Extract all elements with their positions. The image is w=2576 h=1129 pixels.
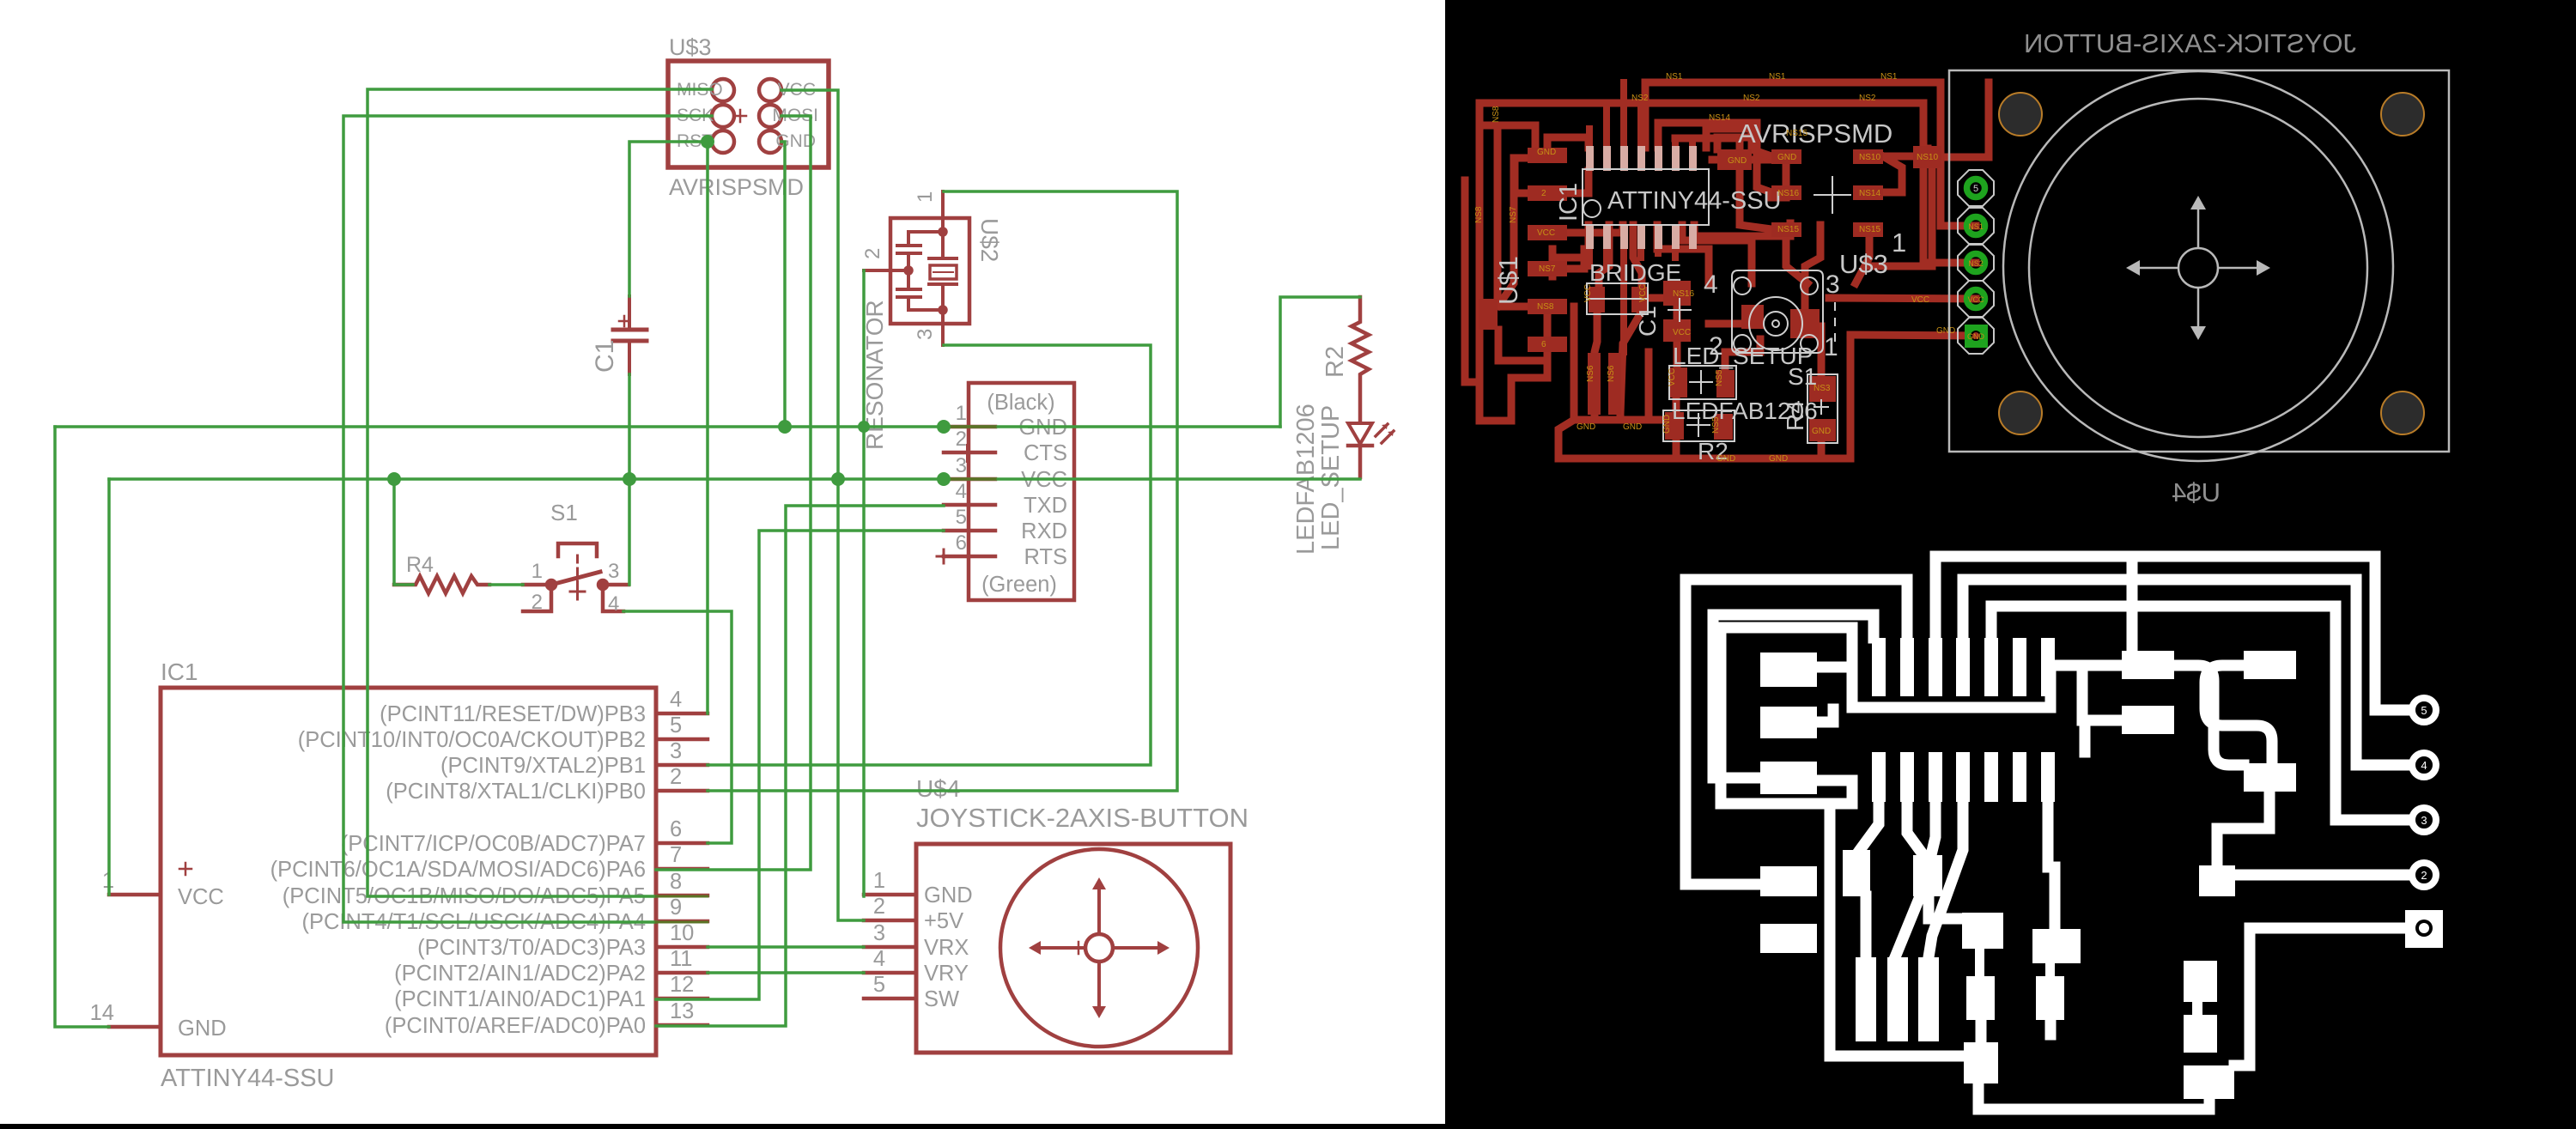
svg-text:2: 2 xyxy=(532,591,543,614)
svg-text:NS1: NS1 xyxy=(1666,72,1683,82)
bottom-left bars (mask) xyxy=(1856,957,1939,1041)
svg-text:NS8: NS8 xyxy=(1474,206,1484,223)
outline S1R4 xyxy=(1807,374,1838,443)
trace IC pads down to bridge xyxy=(1599,225,1609,287)
svg-text:SW: SW xyxy=(924,987,959,1011)
svg-text:NS15: NS15 xyxy=(1786,129,1807,138)
header pads green xyxy=(1958,170,1994,354)
svg-text:TXD: TXD xyxy=(1024,494,1067,518)
svg-text:1: 1 xyxy=(914,191,937,203)
svg-text:GND: GND xyxy=(1967,332,1985,341)
svg-text:NS15: NS15 xyxy=(1777,225,1799,234)
svg-text:IC1: IC1 xyxy=(1555,183,1583,222)
trace stub5 to H1 xyxy=(1929,802,2055,929)
svg-text:(PCINT8/XTAL1/CLKI)PB0: (PCINT8/XTAL1/CLKI)PB0 xyxy=(386,780,646,804)
pin labels U$3 xyxy=(677,80,818,151)
riser traces IC top pads xyxy=(1589,82,1692,148)
header U$3 AVRISPSMD xyxy=(668,61,829,167)
svg-text:C1: C1 xyxy=(1634,306,1661,337)
outline R2 xyxy=(1663,410,1735,441)
trace fork b xyxy=(1895,802,1923,957)
outline bridge xyxy=(1587,283,1648,314)
trace switch pad up xyxy=(1805,225,1820,309)
schematic text xyxy=(90,34,1349,1092)
trace NS6 pair xyxy=(1620,275,1627,352)
mounting holes xyxy=(1999,93,2424,434)
pads U$1 header xyxy=(1528,148,1567,352)
left bottom bars xyxy=(1479,299,1621,415)
svg-text:VCC: VCC xyxy=(1537,228,1555,238)
trace B2 s-curve down xyxy=(2205,665,2272,763)
svg-text:4: 4 xyxy=(1704,270,1718,299)
wire U$3 GND pin to GND rail xyxy=(781,142,785,427)
svg-text:(PCINT7/ICP/OC0B/ADC7)PA7: (PCINT7/ICP/OC0B/ADC7)PA7 xyxy=(341,832,646,856)
svg-text:GND: GND xyxy=(1623,422,1642,432)
trace terminal2 xyxy=(2235,870,2409,881)
trace terminal1 xyxy=(2234,928,2406,1065)
svg-text:U$4: U$4 xyxy=(916,775,960,802)
yellow net labels xyxy=(1474,72,1955,464)
trace U$1 VCC pad3 right xyxy=(1567,225,1623,233)
pads S1/R4 xyxy=(1809,376,1836,441)
trace C1 down to LED xyxy=(1650,294,1663,302)
trace U$3 right col to green VCC xyxy=(1856,237,1869,283)
trace LED right pad to switch xyxy=(1725,339,1760,370)
wire MISO net xyxy=(368,89,712,896)
cross C1 xyxy=(1668,298,1692,322)
IC pin names xyxy=(270,702,646,1038)
trace pad row2 link xyxy=(1817,709,1833,722)
resonator U$2 xyxy=(864,191,969,345)
svg-text:NS10: NS10 xyxy=(1917,153,1938,162)
svg-text:R4: R4 xyxy=(1782,400,1808,431)
bottom pads (mask) xyxy=(1964,1042,2234,1099)
svg-text:8: 8 xyxy=(670,870,682,894)
svg-text:CTS: CTS xyxy=(1024,441,1067,465)
svg-text:2: 2 xyxy=(861,248,884,259)
trace switch left entry xyxy=(1709,320,1749,328)
svg-text:3: 3 xyxy=(873,921,885,945)
white silkscreen / footprints xyxy=(1583,169,1851,443)
svg-text:NS2: NS2 xyxy=(1631,94,1649,103)
pad 5 xyxy=(1967,179,1985,197)
wire resonator pin1 to IC pin2 PB0 xyxy=(708,191,1177,791)
trace IC pad1 gnd xyxy=(1552,225,1589,269)
trace U$3 pads to switch xyxy=(1771,164,1786,197)
svg-text:(PCINT11/RESET/DW)PB3: (PCINT11/RESET/DW)PB3 xyxy=(380,702,646,726)
trace R2 gnd bus xyxy=(1676,440,1821,458)
trace B1 to B4 s-curve xyxy=(2174,665,2244,765)
pads R2 xyxy=(1665,412,1733,440)
svg-text:NS16: NS16 xyxy=(1777,189,1799,198)
trace mid GND vertical xyxy=(1645,352,1653,420)
svg-text:NS7: NS7 xyxy=(1539,264,1556,274)
trace GND left col xyxy=(1498,158,1514,306)
crosshair arrows xyxy=(2126,196,2270,340)
svg-text:JOYSTICK-2AXIS-BUTTON: JOYSTICK-2AXIS-BUTTON xyxy=(916,803,1249,833)
svg-text:2: 2 xyxy=(2421,869,2427,882)
trace fork c xyxy=(1929,802,1963,957)
svg-text:4: 4 xyxy=(608,592,619,616)
svg-text:VCC: VCC xyxy=(1638,284,1648,302)
trace loop terminal3 xyxy=(1991,606,2409,820)
svg-text:IC1: IC1 xyxy=(161,659,198,685)
svg-text:VCC: VCC xyxy=(1668,368,1677,386)
svg-text:14: 14 xyxy=(90,1001,114,1025)
svg-text:BRIDGE: BRIDGE xyxy=(1589,259,1681,286)
trace C1 bottom down xyxy=(1674,342,1681,367)
terminal1 hole xyxy=(2415,920,2433,937)
svg-text:NS2: NS2 xyxy=(1859,94,1876,103)
trace GND top pads link xyxy=(1712,156,1771,164)
svg-text:NS14: NS14 xyxy=(1859,189,1880,198)
trace loop terminal5 xyxy=(1935,556,2409,710)
ring 3 xyxy=(2412,808,2436,832)
schematic sheet background xyxy=(0,0,1445,1129)
svg-text:GND: GND xyxy=(1777,153,1796,162)
svg-text:2: 2 xyxy=(670,765,682,789)
svg-text:NS14: NS14 xyxy=(1709,113,1730,123)
svg-text:NS6: NS6 xyxy=(1586,365,1595,382)
white pcb labels xyxy=(1493,118,1906,464)
wire C1 bottom to VCC and S1 pin3 xyxy=(628,374,631,585)
wire S1 pin4 to IC pin6 PA7 xyxy=(623,611,732,843)
LED LED_SETUP xyxy=(1348,423,1394,477)
svg-text:U$4: U$4 xyxy=(2172,477,2221,507)
svg-text:AVRISPSMD: AVRISPSMD xyxy=(1738,118,1893,149)
right pads (mask) xyxy=(2122,651,2296,896)
svg-text:ATTINY44-SSU: ATTINY44-SSU xyxy=(1607,187,1782,215)
trace left outer loop xyxy=(1686,580,1907,884)
pads IC1 soic14 top xyxy=(1586,146,1697,171)
svg-text:1: 1 xyxy=(873,869,885,893)
circle big outer xyxy=(2003,71,2393,461)
junction U$3VCC/VCC xyxy=(831,472,845,486)
pads bridge xyxy=(1589,287,1648,313)
trace inner loop B long run xyxy=(1721,628,2122,1056)
trace NS10 right xyxy=(1883,149,1928,156)
svg-text:VCC: VCC xyxy=(1673,328,1691,337)
trace U$3 GND pad to IC xyxy=(1706,129,1771,156)
wire resonator pin3 to IC pin3 PB1 xyxy=(708,345,1151,765)
wire U$3 MOSI to IC pin7 xyxy=(656,116,811,870)
terminal squares/rings xyxy=(2405,910,2443,948)
svg-text:11: 11 xyxy=(670,947,692,971)
svg-text:U$3: U$3 xyxy=(1839,249,1888,279)
trace B2 to B5 elbow xyxy=(2217,792,2269,865)
trace IC bottom descenders xyxy=(1589,240,1692,275)
trace H2 down xyxy=(2045,1020,2057,1035)
wire over pin8 stub xyxy=(656,895,708,898)
svg-text:NS10: NS10 xyxy=(1859,153,1880,162)
wire resonator pin2 GND to joystick pin1 xyxy=(862,270,866,896)
svg-text:VCC: VCC xyxy=(1583,284,1593,302)
svg-text:VCC: VCC xyxy=(178,885,224,909)
svg-text:13: 13 xyxy=(670,999,694,1023)
trace B3 link xyxy=(2085,720,2122,752)
svg-text:(PCINT2/AIN1/ADC2)PA2: (PCINT2/AIN1/ADC2)PA2 xyxy=(394,962,646,986)
trace NS14 loop xyxy=(1658,123,1771,192)
svg-text:5: 5 xyxy=(2421,704,2427,717)
svg-text:(Black): (Black) xyxy=(987,391,1054,415)
resistor R2 xyxy=(1352,297,1369,422)
SMD pads (red) xyxy=(1479,146,1941,441)
svg-text:GND: GND xyxy=(1662,415,1672,434)
trace U$1 pad2 to IC xyxy=(1567,171,1589,193)
mirrored labels xyxy=(2024,28,2356,507)
trace IC col4 down xyxy=(1657,225,1709,283)
svg-text:(PCINT0/AREF/ADC0)PA0: (PCINT0/AREF/ADC0)PA0 xyxy=(385,1014,646,1038)
svg-text:(PCINT1/AIN0/ADC1)PA1: (PCINT1/AIN0/ADC1)PA1 xyxy=(394,987,646,1011)
svg-text:R2: R2 xyxy=(1321,346,1349,378)
pad 1 square xyxy=(1965,325,1988,348)
svg-text:4: 4 xyxy=(2421,759,2427,772)
svg-text:RTS: RTS xyxy=(1024,545,1067,569)
svg-text:GND: GND xyxy=(1812,427,1831,436)
ring 2 xyxy=(2412,863,2436,887)
switch footprint xyxy=(1732,270,1835,353)
wire PA3 to joystick VRX xyxy=(708,945,864,949)
trace NS7 left loop xyxy=(1515,158,1546,193)
resonator pin numbers xyxy=(861,191,937,340)
junction RST/C1 xyxy=(701,135,714,149)
switch S1 xyxy=(523,543,629,611)
svg-text:+5V: +5V xyxy=(924,909,963,933)
svg-text:(PCINT6/OC1A/SDA/MOSI/ADC6)PA6: (PCINT6/OC1A/SDA/MOSI/ADC6)PA6 xyxy=(270,858,646,882)
trace U$1 pad5 down xyxy=(1498,314,1547,361)
wire R4 to VCC rail xyxy=(394,479,413,585)
trace bridge-left pads down xyxy=(1591,414,1599,420)
svg-text:NS5: NS5 xyxy=(1715,369,1724,386)
svg-text:VRY: VRY xyxy=(924,962,969,986)
svg-text:GND: GND xyxy=(1936,326,1955,336)
svg-text:9: 9 xyxy=(670,895,682,920)
trace fork a xyxy=(1860,802,1879,957)
trace vcc col under IC xyxy=(1549,249,1557,276)
wire SCK net xyxy=(343,116,712,922)
svg-text:(PCINT9/XTAL2)PB1: (PCINT9/XTAL2)PB1 xyxy=(440,754,646,778)
trace NS8 outermost xyxy=(1465,180,1479,382)
junction U$3GND/GND xyxy=(778,420,792,434)
svg-text:1: 1 xyxy=(1824,333,1838,361)
wire PA2 to joystick VRY xyxy=(708,971,864,974)
svg-text:GND: GND xyxy=(924,883,973,907)
svg-text:ATTINY44-SSU: ATTINY44-SSU xyxy=(161,1065,335,1092)
svg-text:4: 4 xyxy=(873,947,885,971)
outline IC1 xyxy=(1583,169,1709,225)
trace bottom U xyxy=(1978,1082,2209,1109)
svg-text:10: 10 xyxy=(670,921,694,945)
trace bottom bus left rise xyxy=(1558,420,1574,458)
FTDI texts xyxy=(981,391,1067,597)
trace bridge fork right xyxy=(1620,314,1640,420)
wire over FTDI VCC stub xyxy=(944,478,995,481)
ring 5 xyxy=(2412,698,2436,722)
trace switch S1 to R4 xyxy=(1818,326,1826,375)
trace B3 link xyxy=(2082,668,2122,720)
trace U$1 pad6 region xyxy=(1479,352,1547,421)
svg-text:5: 5 xyxy=(956,506,967,529)
trace U$3 left col mid xyxy=(1717,137,1757,163)
left pad column (mask) xyxy=(1760,653,1817,953)
svg-text:GND: GND xyxy=(1577,422,1595,432)
junction C1/VCC xyxy=(623,472,636,486)
trace pad row3 link xyxy=(1817,780,1852,804)
trace bottom bus left xyxy=(1558,455,1676,463)
trace NS10 riser xyxy=(1943,82,1989,157)
svg-text:2: 2 xyxy=(1709,332,1723,361)
svg-text:RXD: RXD xyxy=(1021,519,1067,543)
svg-text:12: 12 xyxy=(670,973,694,997)
terminal rings xyxy=(2412,698,2436,887)
bottom black strip xyxy=(0,1124,2576,1129)
pad 3 xyxy=(1967,254,1985,272)
H pads center (mask) xyxy=(1962,913,2003,1020)
svg-text:NS3: NS3 xyxy=(1814,384,1831,393)
junction FTDI GND xyxy=(937,420,951,434)
svg-text:S1: S1 xyxy=(550,500,578,525)
svg-text:JOYSTICK-2AXIS-BUTTON: JOYSTICK-2AXIS-BUTTON xyxy=(2024,28,2356,58)
trace left inner loop xyxy=(1713,615,1874,778)
svg-text:1: 1 xyxy=(1892,228,1906,258)
svg-text:3: 3 xyxy=(2421,814,2427,827)
svg-text:VRX: VRX xyxy=(924,936,969,960)
trace bridge fork left xyxy=(1595,314,1597,414)
ring 4 xyxy=(2412,753,2436,777)
outline header octagons xyxy=(1958,170,1994,354)
pin numbers S1 xyxy=(532,560,620,616)
svg-text:3: 3 xyxy=(914,329,937,340)
svg-text:NS5: NS5 xyxy=(1711,416,1721,434)
svg-text:(Green): (Green) xyxy=(981,573,1057,597)
pads IC1 soic14 bottom xyxy=(1586,224,1697,249)
cross U$3 xyxy=(1814,176,1851,214)
resistor R4 xyxy=(394,576,489,593)
trace LED to R2 xyxy=(1673,398,1680,412)
svg-text:U$1: U$1 xyxy=(1493,256,1523,305)
svg-text:3: 3 xyxy=(608,560,619,583)
pads GND top middle xyxy=(1717,149,1752,170)
svg-text:4: 4 xyxy=(956,480,967,503)
svg-text:NS8: NS8 xyxy=(1492,106,1501,123)
IC IC1 ATTINY44 xyxy=(109,688,708,1055)
pads C1 xyxy=(1663,281,1691,342)
trace NS15 loop xyxy=(1675,138,1771,229)
wire U$3 VCC to joystick +5V xyxy=(781,90,864,920)
trace VCC switch to green pad4 xyxy=(1829,298,1976,299)
svg-text:6: 6 xyxy=(956,531,967,555)
svg-text:2: 2 xyxy=(1541,189,1546,198)
trace pad row1 link xyxy=(1817,662,1852,673)
trace riser mid xyxy=(2127,556,2138,651)
trace U$1 pad4 xyxy=(1567,249,1584,269)
outline LED xyxy=(1669,366,1736,399)
crosshair circle xyxy=(2178,248,2218,288)
wire RST net xyxy=(629,142,708,713)
pad 4 xyxy=(1967,217,1985,235)
svg-text:3: 3 xyxy=(1826,270,1840,299)
trace loop terminal4 xyxy=(1963,580,2409,765)
svg-text:NS2: NS2 xyxy=(1743,94,1760,103)
svg-text:U$3: U$3 xyxy=(669,34,712,60)
junction R4/VCC xyxy=(387,472,401,486)
IC top pads (mask) xyxy=(1872,638,2055,696)
wire TXD net to IC pin13 xyxy=(656,506,944,1026)
wire R4 to S1 pin1 xyxy=(489,583,523,586)
svg-text:6: 6 xyxy=(1541,340,1546,349)
svg-text:GND: GND xyxy=(1728,156,1747,166)
pads LED xyxy=(1670,367,1735,398)
trace NS8 outer left loop xyxy=(1498,125,1535,307)
connector FTDI (Black/Green) xyxy=(937,383,1074,600)
svg-text:2: 2 xyxy=(873,895,885,919)
svg-text:R4: R4 xyxy=(406,553,434,577)
svg-text:NS1: NS1 xyxy=(1769,72,1786,82)
trace VCC bridge to C1 xyxy=(1649,294,1656,302)
svg-text:C1: C1 xyxy=(591,340,619,373)
svg-text:(PCINT10/INT0/OC0A/CKOUT)PB2: (PCINT10/INT0/OC0A/CKOUT)PB2 xyxy=(298,728,646,752)
trace S1/R4 bottom to GND bus xyxy=(1821,335,1850,458)
svg-text:NS16: NS16 xyxy=(1673,289,1694,299)
svg-text:NS2: NS2 xyxy=(1968,259,1984,268)
joystick U$4 xyxy=(864,844,1230,1053)
trace left U$1 col vertical xyxy=(1479,103,1498,421)
wire GND rail xyxy=(55,297,1360,1027)
svg-text:NS7: NS7 xyxy=(1509,206,1518,223)
IC bottom pads (mask) xyxy=(1872,752,2055,802)
trace NS15 right col xyxy=(1883,156,1902,192)
svg-text:NS1: NS1 xyxy=(1880,72,1898,82)
trace IC col6 down to switch xyxy=(1682,225,1752,283)
svg-text:GND: GND xyxy=(178,1017,227,1041)
joystick pin names xyxy=(924,883,973,1011)
wire RXD net to IC pin12 xyxy=(656,531,944,999)
svg-text:VCC: VCC xyxy=(1911,295,1929,305)
outline joystick board xyxy=(1949,70,2449,461)
pads under switch xyxy=(1741,305,1820,338)
trace GND bottom-left bus xyxy=(1574,307,1676,420)
svg-text:6: 6 xyxy=(670,817,682,841)
svg-text:GND: GND xyxy=(1769,454,1788,464)
pcb black background xyxy=(1445,0,2576,1129)
pad 2 xyxy=(1967,290,1985,308)
joystick pin numbers xyxy=(873,869,885,997)
svg-text:5: 5 xyxy=(670,713,682,737)
svg-text:1: 1 xyxy=(532,560,543,583)
trace C1 to switch xyxy=(1674,306,1681,319)
FTDI pin numbers xyxy=(956,402,967,555)
junction resonator GND xyxy=(858,421,870,433)
svg-text:VCC: VCC xyxy=(1967,295,1984,304)
trace H1 down xyxy=(1976,1020,1987,1042)
svg-text:GND: GND xyxy=(1716,454,1735,464)
trace IC col7 to U$3 xyxy=(1694,223,1790,236)
wire over FTDI GND stub xyxy=(944,426,995,428)
svg-text:NS1: NS1 xyxy=(1968,222,1984,231)
trace U$1 pad1 GND up xyxy=(1547,137,1589,155)
junction FTDI VCC xyxy=(937,472,951,486)
svg-text:NS15: NS15 xyxy=(1859,225,1880,234)
svg-text:(PCINT3/T0/ADC3)PA3: (PCINT3/T0/ADC3)PA3 xyxy=(417,936,646,960)
svg-text:7: 7 xyxy=(670,843,682,867)
pads U$3 xyxy=(1771,146,1941,237)
trace GND to green pad5 xyxy=(1850,335,1976,336)
svg-text:3: 3 xyxy=(670,739,682,763)
svg-text:1: 1 xyxy=(956,402,967,425)
circle inner xyxy=(2029,99,2367,437)
svg-text:5: 5 xyxy=(873,973,885,997)
svg-text:NS8: NS8 xyxy=(1537,302,1554,312)
